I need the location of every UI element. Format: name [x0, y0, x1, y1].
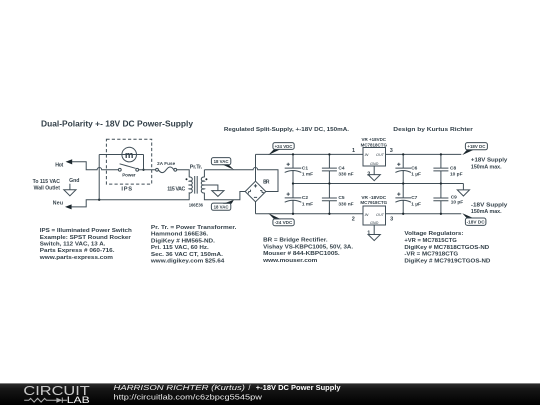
- svg-text:Dual-Polarity +- 18V DC Power-: Dual-Polarity +- 18V DC Power-Supply: [41, 119, 193, 129]
- svg-text:C6: C6: [411, 165, 417, 171]
- svg-text:C5: C5: [338, 195, 344, 201]
- svg-text:115 VAC: 115 VAC: [167, 186, 185, 192]
- svg-text:3: 3: [390, 148, 393, 154]
- svg-text:MC7918CTG: MC7918CTG: [360, 200, 387, 206]
- svg-text:C7: C7: [411, 195, 417, 201]
- svg-text:2A Fuse: 2A Fuse: [157, 161, 176, 166]
- svg-text:OUT: OUT: [376, 213, 385, 217]
- svg-text:Design by Kurtus Richter: Design by Kurtus Richter: [393, 127, 474, 133]
- svg-text:m: m: [125, 150, 134, 161]
- svg-text:+18V Supply: +18V Supply: [471, 158, 508, 164]
- svg-text:LAB: LAB: [67, 395, 90, 405]
- svg-text:2: 2: [352, 217, 355, 223]
- svg-text:GND: GND: [370, 221, 379, 225]
- svg-text:DigiKey # MC7818CTGOS-ND: DigiKey # MC7818CTGOS-ND: [404, 245, 489, 251]
- svg-text:Parts Express # 060-716.: Parts Express # 060-716.: [40, 248, 115, 254]
- svg-text:18 VAC: 18 VAC: [214, 159, 230, 164]
- svg-text:330 nF: 330 nF: [338, 201, 353, 207]
- svg-text:18 VAC: 18 VAC: [214, 204, 230, 209]
- svg-text:To 115 VAC: To 115 VAC: [33, 179, 61, 185]
- svg-text:IPS = Illuminated Power Switch: IPS = Illuminated Power Switch: [40, 228, 132, 234]
- svg-text:Pri. 115 VAC, 60 Hz.: Pri. 115 VAC, 60 Hz.: [151, 245, 209, 251]
- svg-text:Example: SPST Round Rocker: Example: SPST Round Rocker: [40, 235, 132, 241]
- svg-text:Switch, 112 VAC, 13 A.: Switch, 112 VAC, 13 A.: [40, 242, 106, 248]
- svg-text:-VR = MC7918CTG: -VR = MC7918CTG: [404, 252, 458, 258]
- svg-text:Pr.Tr.: Pr.Tr.: [190, 164, 203, 170]
- svg-text:+-18V DC Power Supply: +-18V DC Power Supply: [256, 383, 342, 392]
- svg-text:3: 3: [390, 217, 393, 223]
- svg-text:MC7818CTG: MC7818CTG: [361, 142, 388, 148]
- svg-text:1 mF: 1 mF: [302, 201, 313, 207]
- svg-text:HARRISON RICHTER (Kurtus): HARRISON RICHTER (Kurtus): [114, 383, 246, 392]
- svg-text:DigiKey # MC7919CTGOS-ND: DigiKey # MC7919CTGOS-ND: [404, 258, 490, 264]
- svg-text:BR = Bridge Rectifier.: BR = Bridge Rectifier.: [263, 238, 328, 244]
- svg-text:OUT: OUT: [376, 153, 385, 157]
- svg-text:+18V DC: +18V DC: [467, 144, 486, 149]
- svg-text:1 mF: 1 mF: [302, 172, 313, 178]
- svg-text:Hammond 166E36.: Hammond 166E36.: [151, 232, 209, 238]
- svg-text:http://circuitlab.com/c6zbpcg5: http://circuitlab.com/c6zbpcg5545pw: [114, 392, 263, 401]
- svg-text:330 nF: 330 nF: [338, 172, 353, 178]
- svg-text:www.digikey.com $25.64: www.digikey.com $25.64: [150, 259, 225, 265]
- svg-text:IPS: IPS: [121, 187, 132, 193]
- svg-text:Vishay VS-KBPC1005, 50V, 3A.: Vishay VS-KBPC1005, 50V, 3A.: [263, 244, 354, 250]
- svg-text:BR: BR: [263, 180, 270, 186]
- svg-text:VR +18VDC: VR +18VDC: [362, 137, 387, 143]
- svg-text:-24 VDC: -24 VDC: [275, 220, 293, 225]
- svg-text:10 pF: 10 pF: [450, 172, 463, 178]
- svg-text:C1: C1: [302, 165, 308, 171]
- svg-text:C8: C8: [450, 165, 456, 171]
- svg-text:Pr. Tr. = Power Transformer.: Pr. Tr. = Power Transformer.: [151, 225, 237, 231]
- svg-text:Voltage Regulators:: Voltage Regulators:: [404, 231, 463, 237]
- svg-text:Sec. 36 VAC CT, 150mA.: Sec. 36 VAC CT, 150mA.: [151, 252, 224, 258]
- svg-text:+VR = MC7815CTG: +VR = MC7815CTG: [404, 238, 456, 244]
- svg-text:Gnd: Gnd: [69, 178, 79, 184]
- svg-text:+24 VDC: +24 VDC: [275, 144, 293, 149]
- svg-text:IN: IN: [365, 213, 369, 217]
- svg-text:Mouser # 844-KBPC1005.: Mouser # 844-KBPC1005.: [263, 251, 340, 257]
- svg-text:www.parts-express.com: www.parts-express.com: [39, 255, 114, 261]
- svg-text:C2: C2: [302, 195, 308, 201]
- svg-text:www.mouser.com: www.mouser.com: [262, 258, 318, 264]
- svg-text:-18V Supply: -18V Supply: [471, 202, 508, 208]
- svg-text:Wall Outlet: Wall Outlet: [34, 185, 61, 191]
- svg-text:C4: C4: [338, 165, 344, 171]
- svg-text:Regulated Split-Supply, +-18V: Regulated Split-Supply, +-18V DC, 150mA.: [224, 127, 350, 133]
- svg-text:GND: GND: [370, 162, 379, 166]
- svg-text:Power: Power: [122, 172, 136, 177]
- svg-text:1 µF: 1 µF: [411, 201, 421, 207]
- svg-text:IN: IN: [365, 153, 369, 157]
- svg-text:-18V DC: -18V DC: [467, 220, 486, 225]
- svg-text:DigiKey # HM565-ND.: DigiKey # HM565-ND.: [151, 238, 216, 244]
- svg-text:Hot: Hot: [55, 163, 63, 169]
- svg-text:1: 1: [352, 148, 355, 154]
- svg-text:1 µF: 1 µF: [411, 172, 421, 178]
- svg-text:150mA max.: 150mA max.: [471, 209, 502, 215]
- svg-text:10 pF: 10 pF: [451, 199, 464, 205]
- svg-text:150mA max.: 150mA max.: [471, 165, 502, 171]
- svg-text:Neu: Neu: [53, 200, 63, 206]
- svg-text:166E36: 166E36: [189, 203, 204, 208]
